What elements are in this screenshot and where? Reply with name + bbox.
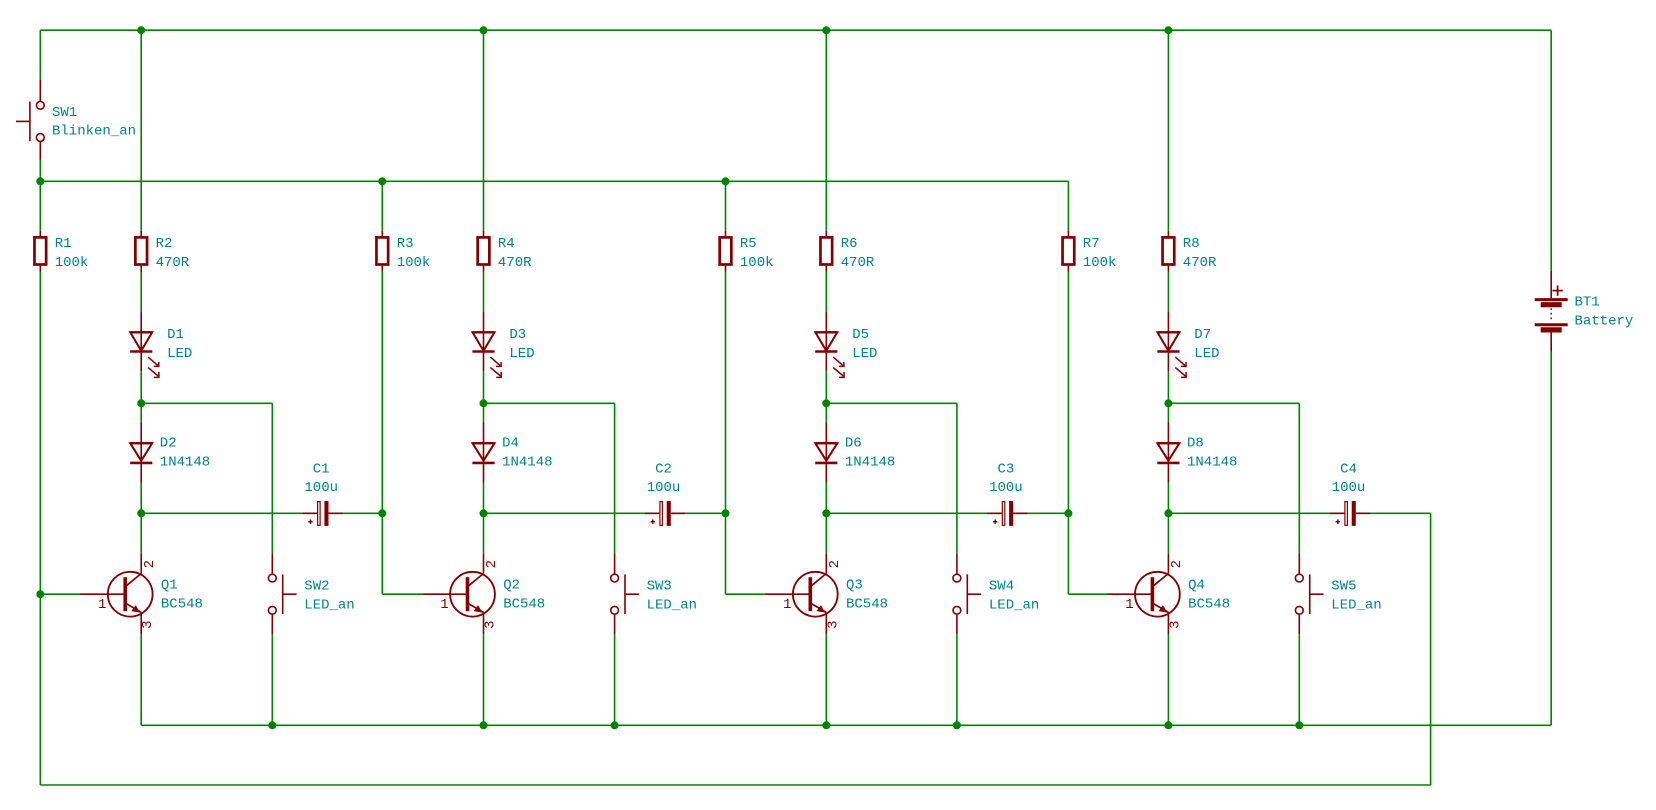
svg-text:Q1: Q1: [161, 578, 178, 594]
junction: [480, 26, 488, 34]
junction: [1164, 399, 1172, 407]
resistor R4: [478, 231, 532, 272]
wire: [483, 30, 485, 231]
wire: [1168, 512, 1430, 514]
resistor R6: [820, 231, 874, 272]
svg-text:3: 3: [1167, 620, 1183, 628]
svg-text:D4: D4: [502, 436, 519, 452]
svg-text:R1: R1: [55, 236, 72, 252]
svg-text:SW5: SW5: [1331, 579, 1356, 595]
wire: [483, 483, 485, 555]
svg-text:100u: 100u: [647, 480, 681, 496]
wire: [40, 180, 1068, 182]
svg-text:R3: R3: [397, 236, 414, 252]
wire: [1550, 352, 1552, 725]
junction: [822, 26, 830, 34]
wire: [1167, 30, 1169, 231]
junction: [137, 399, 145, 407]
wire: [1298, 634, 1300, 725]
junction: [822, 399, 830, 407]
wire: [483, 634, 485, 725]
junction: [480, 509, 488, 517]
junction: [822, 509, 830, 517]
wire: [614, 634, 616, 725]
wire: [484, 512, 726, 514]
junction: [1064, 509, 1072, 517]
svg-text:D7: D7: [1194, 327, 1211, 343]
transistor Q3: [765, 554, 888, 634]
wire: [141, 402, 272, 404]
LED D3: [472, 312, 534, 377]
svg-text:BC548: BC548: [503, 597, 545, 613]
svg-text:BC548: BC548: [846, 597, 888, 613]
wire: [39, 272, 41, 786]
svg-text:Blinken_an: Blinken_an: [52, 124, 136, 140]
junction: [378, 177, 386, 185]
wire: [725, 272, 727, 514]
LED D5: [815, 312, 877, 377]
switch SW2: [268, 554, 354, 634]
wire: [382, 593, 422, 595]
junction: [480, 399, 488, 407]
wire: [483, 371, 485, 422]
diode D8: [1157, 423, 1237, 483]
junction: [36, 590, 44, 598]
wire: [825, 272, 827, 313]
wire: [271, 634, 273, 725]
svg-text:1N4148: 1N4148: [160, 455, 210, 471]
resistor R5: [720, 231, 774, 272]
wire: [825, 483, 827, 555]
junction: [137, 26, 145, 34]
diode D2: [130, 423, 210, 483]
junction: [611, 721, 619, 729]
wire: [381, 513, 383, 594]
switch SW4: [953, 554, 1039, 634]
wire: [1068, 593, 1107, 595]
wire: [39, 160, 41, 231]
wire: [1167, 483, 1169, 555]
svg-text:R6: R6: [841, 236, 858, 252]
svg-text:100k: 100k: [740, 255, 774, 271]
wire: [381, 272, 383, 514]
resistor R3: [376, 231, 430, 272]
svg-text:LED_an: LED_an: [304, 598, 354, 614]
LED D1: [130, 312, 192, 377]
svg-text:D5: D5: [852, 327, 869, 343]
svg-text:100u: 100u: [304, 480, 338, 496]
svg-text:LED_an: LED_an: [1331, 598, 1381, 614]
wire: [1067, 513, 1069, 594]
svg-text:Battery: Battery: [1575, 314, 1634, 330]
svg-text:BC548: BC548: [161, 597, 203, 613]
svg-text:1: 1: [440, 597, 448, 613]
svg-text:LED_an: LED_an: [647, 598, 697, 614]
svg-text:C4: C4: [1340, 461, 1357, 477]
svg-text:2: 2: [1169, 560, 1185, 568]
wire: [483, 272, 485, 313]
svg-text:SW3: SW3: [647, 579, 672, 595]
svg-text:R7: R7: [1083, 236, 1100, 252]
diode D4: [472, 423, 552, 483]
junction: [953, 721, 961, 729]
junction: [722, 509, 730, 517]
capacitor C2: [645, 461, 685, 527]
switch SW5: [1295, 554, 1381, 634]
svg-text:D6: D6: [845, 436, 862, 452]
resistor R8: [1163, 231, 1217, 272]
switch SW1: [16, 80, 136, 160]
wire: [39, 30, 41, 80]
transistor Q2: [423, 554, 546, 634]
wire: [826, 402, 957, 404]
svg-text:R8: R8: [1183, 236, 1200, 252]
wire: [1168, 402, 1299, 404]
svg-text:100u: 100u: [989, 480, 1023, 496]
wire: [40, 29, 1551, 31]
resistor R1: [34, 231, 88, 272]
wire: [826, 512, 1068, 514]
junction: [1164, 509, 1172, 517]
svg-text:100k: 100k: [397, 255, 431, 271]
svg-text:1: 1: [1125, 597, 1133, 613]
svg-text:470R: 470R: [841, 255, 875, 271]
wire: [614, 403, 616, 554]
wire: [484, 402, 615, 404]
transistor Q4: [1107, 554, 1230, 634]
svg-text:3: 3: [825, 620, 841, 628]
wire: [1167, 272, 1169, 313]
svg-text:D1: D1: [167, 327, 184, 343]
svg-text:Q2: Q2: [503, 578, 520, 594]
wire: [956, 634, 958, 725]
svg-text:2: 2: [827, 560, 843, 568]
svg-text:C2: C2: [655, 461, 672, 477]
svg-text:SW4: SW4: [989, 579, 1014, 595]
svg-text:LED: LED: [852, 346, 877, 362]
wire: [1430, 513, 1432, 785]
wire: [1167, 634, 1169, 725]
svg-text:Q3: Q3: [846, 578, 863, 594]
wire: [40, 784, 1430, 786]
capacitor C4: [1330, 461, 1370, 527]
svg-text:470R: 470R: [156, 255, 190, 271]
junction: [1295, 721, 1303, 729]
svg-text:R5: R5: [740, 236, 757, 252]
svg-text:1N4148: 1N4148: [502, 455, 552, 471]
junction: [722, 177, 730, 185]
capacitor C1: [303, 461, 343, 527]
wire: [1067, 272, 1069, 514]
svg-text:100k: 100k: [55, 255, 89, 271]
wire: [1067, 181, 1069, 231]
svg-text:LED: LED: [167, 346, 192, 362]
svg-text:1: 1: [783, 597, 791, 613]
svg-text:LED: LED: [509, 346, 534, 362]
svg-text:1N4148: 1N4148: [1187, 455, 1237, 471]
wire: [956, 403, 958, 554]
wire: [726, 593, 766, 595]
wire: [1298, 403, 1300, 554]
wire: [725, 513, 727, 594]
svg-text:R2: R2: [156, 236, 173, 252]
svg-text:3: 3: [140, 620, 156, 628]
svg-text:2: 2: [142, 560, 158, 568]
svg-text:SW2: SW2: [304, 579, 329, 595]
svg-text:LED_an: LED_an: [989, 598, 1039, 614]
junction: [268, 721, 276, 729]
svg-text:100u: 100u: [1332, 480, 1366, 496]
junction: [1164, 721, 1172, 729]
svg-text:D2: D2: [160, 436, 177, 452]
wire: [140, 483, 142, 555]
wire: [271, 403, 273, 554]
wire: [141, 724, 1551, 726]
wire: [140, 634, 142, 725]
battery BT1: [1535, 271, 1634, 352]
svg-text:470R: 470R: [1183, 255, 1217, 271]
svg-text:LED: LED: [1194, 346, 1219, 362]
wire: [825, 30, 827, 231]
wire: [140, 371, 142, 422]
svg-text:D3: D3: [509, 327, 526, 343]
svg-text:3: 3: [483, 620, 499, 628]
svg-text:C3: C3: [997, 461, 1014, 477]
junction: [36, 177, 44, 185]
junction: [480, 721, 488, 729]
resistor R2: [135, 231, 189, 272]
switch SW3: [611, 554, 697, 634]
svg-text:1: 1: [98, 597, 106, 613]
junction: [822, 721, 830, 729]
wire: [140, 30, 142, 231]
svg-text:470R: 470R: [498, 255, 532, 271]
wire: [1167, 371, 1169, 422]
junction: [1164, 26, 1172, 34]
svg-text:BC548: BC548: [1188, 597, 1230, 613]
svg-text:BT1: BT1: [1575, 295, 1600, 311]
wire: [381, 181, 383, 231]
wire: [825, 634, 827, 725]
wire: [1550, 30, 1552, 271]
svg-text:Q4: Q4: [1188, 578, 1205, 594]
wire: [825, 371, 827, 422]
wire: [40, 593, 80, 595]
wire: [725, 181, 727, 231]
svg-text:C1: C1: [313, 461, 330, 477]
svg-text:R4: R4: [498, 236, 515, 252]
LED D7: [1157, 312, 1219, 377]
resistor R7: [1063, 231, 1117, 272]
svg-text:SW1: SW1: [52, 105, 77, 121]
svg-text:D8: D8: [1187, 436, 1204, 452]
diode D6: [815, 423, 895, 483]
capacitor C3: [987, 461, 1027, 527]
transistor Q1: [80, 554, 203, 634]
junction: [137, 509, 145, 517]
svg-text:1N4148: 1N4148: [845, 455, 895, 471]
svg-text:2: 2: [484, 560, 500, 568]
wire: [141, 512, 382, 514]
wire: [140, 272, 142, 313]
svg-text:100k: 100k: [1083, 255, 1117, 271]
junction: [378, 509, 386, 517]
